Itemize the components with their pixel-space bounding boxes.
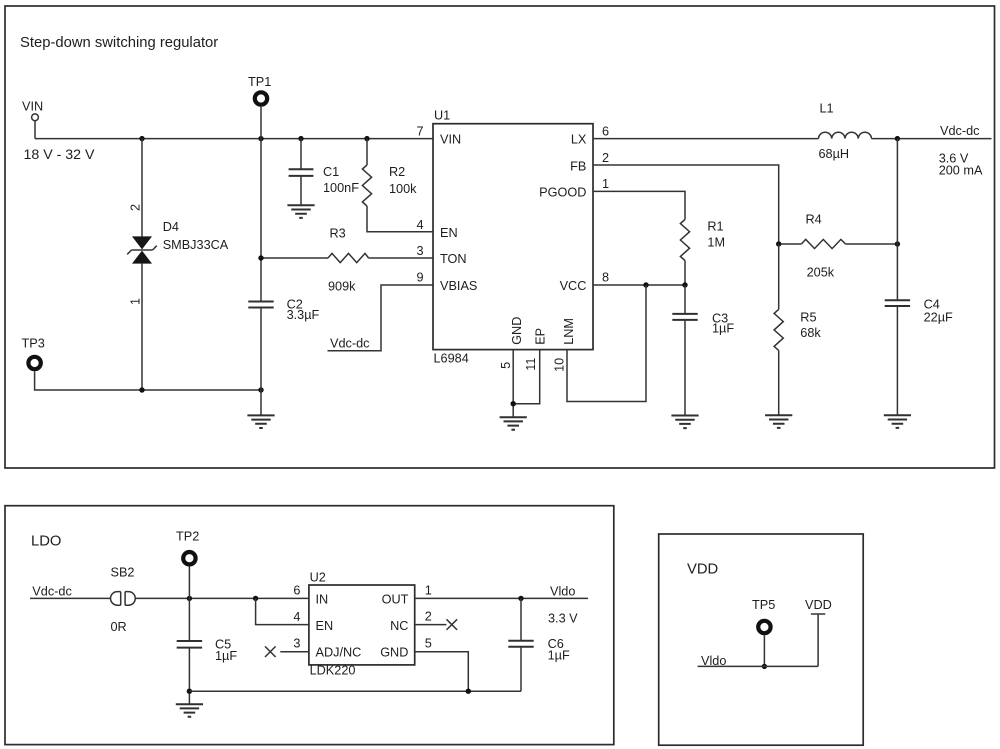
ground below bottom rail	[247, 390, 274, 428]
svg-text:22µF: 22µF	[924, 310, 953, 324]
resistor R5	[774, 309, 821, 350]
node junction R2	[364, 136, 369, 141]
svg-text:4: 4	[416, 218, 423, 232]
pin number 9	[416, 271, 423, 285]
wire GND pin to ground	[512, 350, 514, 418]
wire TP1 to main rail	[260, 107, 262, 139]
op-amp U1	[433, 108, 593, 365]
pin name VIN	[440, 132, 461, 146]
wire VIN terminal to main rail	[34, 121, 36, 139]
svg-text:Step-down switching regulator: Step-down switching regulator	[20, 35, 218, 51]
diode D4 (TVS)	[127, 236, 157, 263]
node junction VCC-C3	[682, 282, 687, 287]
wire C3 to ground	[684, 320, 686, 415]
wire Vdc-dc to SB2	[30, 597, 110, 599]
svg-text:3: 3	[416, 244, 423, 258]
wire TP5 to Vldo wire	[763, 635, 765, 666]
pin number 6	[602, 125, 609, 139]
ground below R5	[765, 415, 792, 428]
wire Vdc-dc to VBIAS pin	[328, 285, 434, 351]
wire main VIN rail	[35, 138, 433, 140]
pin name NC	[390, 619, 408, 633]
node junction C6	[518, 596, 523, 601]
svg-text:7: 7	[416, 124, 423, 138]
wire NC pin no-connect	[415, 624, 447, 626]
svg-text:R2: R2	[389, 165, 405, 179]
pin name VCC	[560, 279, 587, 293]
svg-text:1µF: 1µF	[712, 322, 734, 336]
svg-text:R5: R5	[800, 310, 816, 324]
svg-text:TP5: TP5	[752, 598, 775, 612]
section box: VDD	[659, 534, 864, 745]
wire C1 to ground	[300, 177, 302, 206]
svg-text:VDD: VDD	[687, 562, 718, 578]
inductor L1	[819, 102, 872, 162]
resistor R4	[801, 213, 845, 280]
label D4 SMBJ33CA	[163, 220, 229, 252]
node junction GND rail	[466, 689, 471, 694]
wire TON node to C2	[260, 258, 262, 301]
net label Vdc-dc output	[940, 124, 980, 138]
svg-text:EN: EN	[440, 226, 458, 240]
wire C2 to bottom rail	[260, 308, 262, 390]
no-connect X at ADJ/NC	[265, 646, 276, 657]
pin name IN	[316, 593, 329, 607]
wire R3 to TON pin	[369, 257, 433, 259]
node junction D4	[139, 136, 144, 141]
ground below C4	[884, 415, 911, 428]
wire R1 to VCC node	[684, 261, 686, 286]
value label 3.6 V 200 mA	[939, 151, 983, 177]
svg-text:EP: EP	[533, 328, 547, 345]
test point TP2	[176, 530, 199, 565]
svg-text:6: 6	[293, 583, 300, 597]
svg-text:2: 2	[602, 151, 609, 165]
svg-text:Vdc-dc: Vdc-dc	[330, 336, 370, 350]
svg-text:0R: 0R	[111, 620, 127, 634]
pin number 1 of U2	[425, 583, 432, 597]
power symbol VDD	[811, 614, 825, 666]
wire PGOOD pin to R1	[593, 191, 685, 219]
pin number 2 of U2	[425, 609, 432, 623]
svg-text:TON: TON	[440, 252, 467, 266]
node junction Vdc-dc	[895, 136, 900, 141]
pin name EP	[533, 328, 547, 345]
wire LNM pin to VCC node	[567, 285, 646, 402]
node junction LNM-VCC	[643, 282, 648, 287]
svg-text:18 V - 32 V: 18 V - 32 V	[24, 147, 96, 163]
op-amp U2	[309, 570, 415, 677]
svg-text:5: 5	[499, 362, 513, 369]
pin number 4 of U2	[293, 610, 300, 624]
wire bottom rail D4 to C2	[142, 389, 261, 391]
pin name GND	[510, 317, 524, 345]
ground below C1	[287, 205, 314, 218]
svg-text:68µH: 68µH	[819, 147, 850, 161]
test point TP1	[248, 75, 271, 105]
pin number 7	[416, 124, 423, 138]
wire C5 to ground	[188, 648, 190, 704]
svg-text:LNM: LNM	[562, 318, 576, 345]
svg-text:R1: R1	[707, 219, 723, 233]
wire D4 to bottom rail	[141, 264, 143, 390]
svg-text:LDK220: LDK220	[310, 663, 356, 677]
svg-text:6: 6	[602, 125, 609, 139]
svg-text:SB2: SB2	[111, 565, 135, 579]
svg-text:LDO: LDO	[31, 534, 61, 550]
capacitor C6	[508, 637, 570, 663]
pin number 5 of U2	[425, 637, 432, 651]
solder bridge SB2	[111, 565, 136, 634]
wire LX pin to L1	[593, 138, 819, 140]
wire main rail to C1	[300, 139, 302, 169]
svg-text:3: 3	[293, 637, 300, 651]
svg-text:VCC: VCC	[560, 279, 587, 293]
wire TON node to R3	[261, 257, 328, 259]
resistor R1	[680, 219, 725, 260]
value label 3.3 V	[548, 611, 578, 625]
svg-text:TP2: TP2	[176, 530, 199, 544]
value label 18 V - 32 V	[24, 147, 96, 163]
wire R4 node to R5	[778, 244, 780, 309]
svg-text:100nF: 100nF	[323, 181, 359, 195]
wire EP pin to GND node	[513, 350, 540, 404]
svg-text:TP3: TP3	[22, 337, 45, 351]
svg-text:1M: 1M	[707, 235, 725, 249]
svg-text:68k: 68k	[800, 326, 821, 340]
node junction TP5	[762, 664, 767, 669]
pin name FB	[570, 160, 586, 174]
net label VDD	[805, 598, 832, 612]
svg-text:Vldo: Vldo	[550, 584, 575, 598]
pin name GND of U2	[380, 646, 408, 660]
pin number 2	[602, 151, 609, 165]
ground below C5	[176, 704, 203, 717]
node junction TP1	[258, 136, 263, 141]
svg-text:4: 4	[293, 610, 300, 624]
wire FB pin to R4 node	[593, 165, 779, 244]
svg-text:1µF: 1µF	[548, 649, 570, 663]
svg-text:GND: GND	[380, 646, 408, 660]
net label Vdc-dc input	[32, 584, 72, 598]
capacitor C2	[248, 297, 319, 322]
svg-text:1: 1	[128, 298, 142, 305]
svg-text:11: 11	[524, 358, 538, 371]
test point TP5	[752, 598, 775, 633]
svg-text:FB: FB	[570, 160, 586, 174]
pin number 3	[416, 244, 423, 258]
svg-text:VBIAS: VBIAS	[440, 279, 477, 293]
svg-text:C1: C1	[323, 165, 339, 179]
svg-text:10: 10	[553, 358, 567, 372]
wire main rail to R2	[366, 139, 368, 165]
wire C4 to ground	[896, 307, 898, 416]
wire R2 to EN pin	[367, 206, 433, 232]
svg-text:U2: U2	[310, 570, 326, 584]
svg-text:LX: LX	[571, 132, 587, 146]
svg-text:OUT: OUT	[382, 593, 409, 607]
wire GND pin of U2 to bottom rail	[415, 652, 469, 692]
wire main rail to D4	[141, 139, 143, 237]
svg-text:VDD: VDD	[805, 598, 832, 612]
svg-text:C4: C4	[924, 297, 940, 311]
pin number 8	[602, 271, 609, 285]
svg-text:2: 2	[425, 609, 432, 623]
net label Vdc-dc at VBIAS	[330, 336, 370, 350]
svg-text:100k: 100k	[389, 182, 417, 196]
wire TP3 to bottom rail	[35, 371, 142, 390]
net label Vldo	[550, 584, 575, 598]
section box: LDO	[5, 506, 614, 745]
svg-text:909k: 909k	[328, 280, 356, 294]
node junction C5 bottom rail	[187, 689, 192, 694]
net label Vldo in VDD box	[701, 654, 726, 668]
wire R5 to ground	[778, 350, 780, 415]
svg-text:1µF: 1µF	[215, 649, 237, 663]
node junction C2 bottom	[258, 387, 263, 392]
wire TP1 node down to TON node	[260, 139, 262, 258]
wire bottom rail	[189, 690, 521, 692]
resistor R2	[362, 165, 417, 206]
pin number 11	[524, 358, 538, 371]
svg-text:5: 5	[425, 637, 432, 651]
node junction R4 left	[776, 241, 781, 246]
pin name LNM	[562, 318, 576, 345]
svg-text:TP1: TP1	[248, 75, 271, 89]
node junction TP2	[187, 596, 192, 601]
pin number 4	[416, 218, 423, 232]
wire Vldo node to C6	[520, 598, 522, 640]
pin name LX	[571, 132, 587, 146]
svg-text:3.3µF: 3.3µF	[287, 308, 320, 322]
pin name OUT	[382, 593, 409, 607]
pin number 2 of D4	[128, 204, 142, 211]
node junction C1	[298, 136, 303, 141]
pin name ADJ/NC	[316, 646, 362, 660]
node junction EN branch	[253, 596, 258, 601]
svg-text:U1: U1	[434, 108, 450, 122]
pin number 5	[499, 362, 513, 369]
wire Vdc-dc node to C4	[896, 139, 898, 300]
pin number 6 of U2	[293, 583, 300, 597]
node junction R4 right	[895, 241, 900, 246]
svg-text:9: 9	[416, 271, 423, 285]
svg-text:200 mA: 200 mA	[939, 163, 983, 177]
node junction GND-EP	[511, 401, 516, 406]
svg-text:2: 2	[128, 204, 142, 211]
svg-text:EN: EN	[316, 619, 334, 633]
wire OUT pin to Vldo	[415, 597, 588, 599]
wire VCC pin to C3	[593, 284, 685, 286]
node junction D4 bottom	[139, 387, 144, 392]
node junction TON	[258, 255, 263, 260]
svg-text:205k: 205k	[807, 265, 835, 279]
wire SB2 to IN pin	[136, 597, 309, 599]
svg-text:ADJ/NC: ADJ/NC	[316, 646, 362, 660]
capacitor C3	[672, 311, 734, 335]
pin number 10	[553, 358, 567, 372]
pin number 3 of U2	[293, 637, 300, 651]
svg-text:1: 1	[602, 177, 609, 191]
svg-text:1: 1	[425, 583, 432, 597]
svg-text:IN: IN	[316, 593, 329, 607]
terminal VIN	[32, 114, 39, 121]
ground below C3	[671, 416, 698, 429]
svg-text:Vdc-dc: Vdc-dc	[940, 124, 980, 138]
svg-text:VIN: VIN	[22, 100, 43, 114]
capacitor C4	[885, 297, 953, 324]
wire EN branch	[256, 598, 309, 624]
pin number 1 of D4	[128, 298, 142, 305]
net label VIN	[22, 100, 43, 114]
svg-text:L6984: L6984	[434, 352, 469, 366]
wire Vldo to VDD symbol	[698, 665, 819, 667]
ground below GND pin	[500, 417, 527, 430]
wire L1 to Vdc-dc output	[872, 138, 992, 140]
pin name VBIAS	[440, 279, 477, 293]
pin name PGOOD	[539, 185, 586, 199]
no-connect X at NC	[447, 619, 458, 630]
pin name EN	[440, 226, 458, 240]
pin number 1	[602, 177, 609, 191]
pin name EN of U2	[316, 619, 334, 633]
svg-text:Vdc-dc: Vdc-dc	[32, 584, 72, 598]
wire R4 left node	[779, 243, 802, 245]
resistor R3	[328, 227, 369, 294]
svg-text:NC: NC	[390, 619, 408, 633]
pin name TON	[440, 252, 467, 266]
svg-text:PGOOD: PGOOD	[539, 185, 586, 199]
svg-text:R3: R3	[330, 227, 346, 241]
test point TP3	[22, 337, 45, 370]
svg-text:VIN: VIN	[440, 132, 461, 146]
capacitor C5	[177, 638, 238, 663]
wire ADJ/NC pin no-connect	[280, 651, 309, 653]
wire R4 right node	[846, 243, 898, 245]
section box: step-down regulator	[5, 6, 995, 468]
svg-text:SMBJ33CA: SMBJ33CA	[163, 238, 229, 252]
wire VCC node to C3	[684, 285, 686, 313]
svg-text:GND: GND	[510, 317, 524, 345]
capacitor C1	[289, 165, 360, 195]
wire C6 to bottom rail	[520, 647, 522, 691]
svg-text:8: 8	[602, 271, 609, 285]
svg-text:L1: L1	[820, 102, 834, 116]
svg-text:R4: R4	[806, 213, 822, 227]
svg-text:3.3 V: 3.3 V	[548, 611, 578, 625]
wire TP2 through node to C5	[188, 566, 190, 640]
svg-text:D4: D4	[163, 220, 179, 234]
